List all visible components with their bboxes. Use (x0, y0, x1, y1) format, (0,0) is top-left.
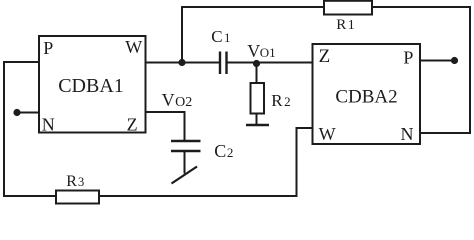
resistor R3 (56, 191, 99, 204)
wire: bottom rail left segment to R3 (3, 195, 56, 197)
svg-text:Z: Z (319, 46, 331, 67)
svg-text:W: W (125, 37, 142, 57)
wire: right vertical rail (469, 6, 471, 134)
ground bar at R2 (246, 124, 269, 126)
wire: junction to C1 left plate (182, 62, 219, 64)
svg-text:Z: Z (127, 114, 138, 134)
capacitor C1 (220, 52, 227, 75)
wire: riser from junction to top rail (181, 6, 183, 63)
svg-text:R1: R1 (336, 17, 355, 33)
node: output terminal dot at CDBA2 P (451, 57, 458, 64)
capacitor C2 (171, 141, 201, 151)
wire: bottom rail right segment from R3 (99, 195, 297, 197)
wire: Vo2 net down to C2 (184, 112, 186, 141)
wire: C1 right plate to CDBA2 Z input (228, 62, 313, 64)
wire: CDBA2 W input stub (296, 127, 314, 129)
wire: riser from bottom rail to CDBA2 W (296, 128, 298, 197)
ground slash at C2 (172, 167, 198, 184)
node: input terminal dot at CDBA1 N (13, 109, 20, 116)
wire: CDBA1 N input stub (17, 112, 39, 114)
node Vo1 (253, 60, 260, 67)
resistor R2 (251, 83, 265, 114)
wire: CDBA1 Z output (Vo2 net) horizontal (146, 111, 186, 113)
CDBA2 block U2 (313, 44, 421, 144)
wire: top rail left segment to R1 (181, 6, 324, 8)
wire: Vo1 down to R2 (256, 64, 258, 84)
svg-text:P: P (403, 48, 413, 68)
wire: R2 bottom lead (256, 114, 258, 126)
wire: top rail right segment from R1 (372, 6, 471, 8)
svg-text:N: N (401, 124, 414, 144)
svg-text:W: W (319, 124, 336, 144)
wire: C2 bottom lead (184, 151, 186, 174)
svg-text:P: P (43, 38, 53, 58)
svg-text:R3: R3 (66, 173, 84, 190)
wire: CDBA1 W output to junction (146, 62, 183, 64)
svg-text:CDBA1: CDBA1 (58, 75, 124, 97)
svg-text:CDBA2: CDBA2 (335, 87, 397, 108)
CDBA1 block U1 (39, 36, 146, 133)
wire: CDBA2 N output stub (420, 132, 471, 134)
wire: left vertical rail (3, 61, 5, 197)
resistor R1 (324, 1, 372, 15)
wire: CDBA1 P input from left rail (3, 61, 39, 63)
svg-text:N: N (42, 114, 55, 134)
svg-text:R2: R2 (271, 91, 290, 110)
node: junction of W output, top feedback and C1 (178, 59, 185, 66)
wire: CDBA2 P output stub (420, 60, 455, 62)
